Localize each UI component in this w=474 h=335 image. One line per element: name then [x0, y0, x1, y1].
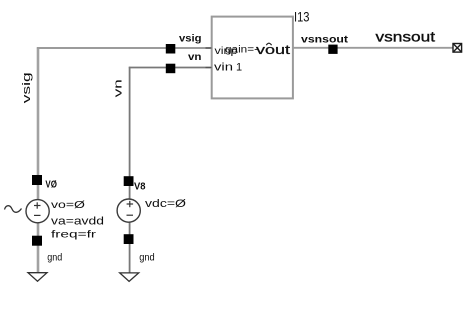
label overlap mark above vout — [266, 43, 271, 45]
svg-text:vsnsout: vsnsout — [376, 29, 436, 45]
svg-text:gain=-: gain=- — [225, 45, 258, 56]
wire vn horizontal — [129, 67, 212, 69]
node vsig junction square — [166, 44, 176, 54]
V8 circle — [117, 199, 140, 222]
wire vsig horizontal — [37, 47, 212, 49]
svg-text:vn: vn — [188, 52, 202, 63]
V0 bottom pin square — [32, 236, 42, 246]
svg-text:vsig: vsig — [21, 72, 33, 103]
svg-text:vdc=Ø: vdc=Ø — [145, 198, 187, 210]
svg-text:vn: vn — [113, 79, 125, 97]
pin stub vinn — [206, 67, 212, 69]
svg-text:freq=fr: freq=fr — [51, 229, 97, 241]
V0 plus — [34, 202, 41, 208]
V0 top pin square — [32, 175, 42, 185]
svg-text:gnd: gnd — [47, 253, 62, 264]
svg-text:vsnsout: vsnsout — [301, 34, 349, 45]
svg-text:vo=Ø: vo=Ø — [51, 200, 85, 211]
svg-text:vsig: vsig — [179, 33, 202, 44]
pin vsnsout output terminal — [453, 44, 462, 53]
V0 minus — [34, 214, 41, 216]
node vsnsout junction square — [328, 45, 337, 54]
V8 top pin square — [124, 176, 134, 186]
wire vn vertical — [129, 67, 131, 273]
V0 circle — [26, 200, 49, 223]
svg-text:I13: I13 — [294, 9, 310, 25]
op-amp block U1 / instance I13 — [212, 17, 293, 99]
svg-text:V8: V8 — [134, 181, 146, 192]
ground symbol right — [120, 273, 139, 282]
svg-text:VØ: VØ — [45, 179, 57, 190]
V8 bottom pin square — [124, 234, 134, 244]
ground symbol left — [28, 273, 47, 282]
wire vsnsout output — [293, 47, 453, 49]
svg-text:va=avdd: va=avdd — [51, 216, 104, 228]
svg-text:vout: vout — [256, 42, 291, 57]
wire vsig vertical — [37, 47, 40, 272]
svg-text:gnd: gnd — [139, 252, 155, 263]
svg-text:1: 1 — [236, 62, 242, 74]
pin stub vinp — [206, 47, 212, 49]
V8 minus — [127, 214, 134, 216]
V8 plus — [127, 201, 134, 207]
svg-text:vin: vin — [214, 62, 233, 74]
node vn junction square — [166, 64, 176, 73]
V0 sine squiggle — [5, 206, 22, 213]
